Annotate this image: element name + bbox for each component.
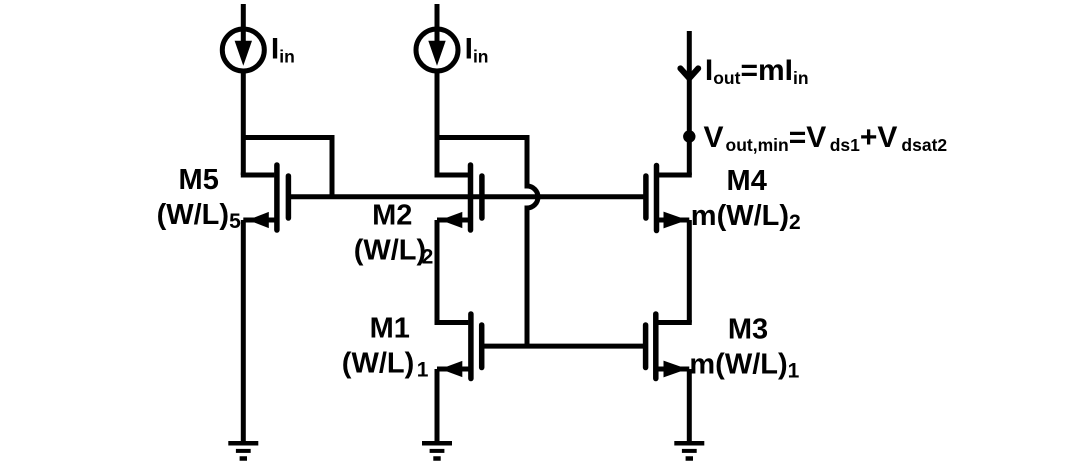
transistor M4 channel bar (654, 166, 660, 231)
current source I1 arrow (235, 32, 252, 66)
M4 source wire + arrow out (657, 212, 690, 229)
transistor M5 channel bar (274, 165, 280, 230)
wire: M5 diode loop horizontal (243, 135, 332, 140)
ground (left) (228, 443, 258, 458)
wire: middle branch top feed (435, 4, 440, 29)
M3 source wire + arrow out (657, 361, 690, 378)
wire: M1 drain stub (435, 320, 469, 325)
wire: M1 source down to ground (435, 369, 440, 443)
wire: M5 diode loop vertical (330, 135, 335, 197)
ground (right) (674, 443, 704, 458)
wire: M2 drain loop horizontal (437, 135, 527, 140)
M1 source wire + arrow into channel (437, 361, 471, 377)
svg-text:m(W/L)1: m(W/L)1 (689, 349, 799, 383)
transistor M5 gate bar (286, 176, 292, 218)
wire: M4 drain stub (657, 173, 692, 178)
svg-text:m(W/L)2: m(W/L)2 (691, 200, 801, 234)
transistor M1 gate bar (479, 325, 485, 368)
svg-text:(W/L)2: (W/L)2 (354, 234, 434, 268)
wire: middle branch CS to M2 drain (435, 71, 539, 346)
wire: M3 source down to ground (687, 369, 692, 443)
transistor M3 gate bar (643, 325, 649, 368)
wire: M5 source down to ground (241, 220, 246, 443)
output current chevron arrow (680, 68, 698, 78)
svg-text:M2: M2 (372, 199, 412, 231)
transistor M1 channel bar (468, 314, 474, 379)
svg-text:(W/L)5: (W/L)5 (157, 199, 241, 233)
wire: M5 drain stub (241, 173, 275, 178)
wire: M2 drain stub (435, 173, 469, 178)
wire: left branch, CS to M5 drain (241, 71, 332, 197)
current source I2 arrow (428, 32, 445, 66)
svg-text:M1: M1 (370, 312, 410, 344)
svg-text:M4: M4 (727, 165, 767, 197)
M5 source wire + arrow into channel (243, 212, 277, 228)
transistor M4 gate bar (643, 176, 649, 218)
ground (middle) (422, 443, 452, 458)
svg-text:M3: M3 (728, 313, 768, 345)
gate line M1-M3 (482, 344, 646, 349)
transistor M3 channel bar (653, 314, 659, 379)
gate bias line M5-M2-M4 (288, 194, 646, 199)
wire: output branch top (687, 31, 692, 175)
M2 source wire + arrow into channel (437, 212, 471, 228)
current source I1 circle (222, 29, 264, 71)
node dot Vout (683, 130, 695, 142)
wire: left branch top feed (241, 4, 246, 29)
wire: M2 source down to M1 drain (435, 220, 440, 323)
transistor M2 gate bar (479, 176, 485, 218)
current source I2 circle (416, 29, 458, 71)
wire: M3 drain stub (657, 320, 692, 325)
wire: M2 drain loop vertical with hop over gate line (527, 135, 538, 346)
svg-text:M5: M5 (179, 164, 219, 196)
transistor M2 channel bar (468, 165, 474, 230)
wire: M4 source down to M3 drain (687, 220, 692, 323)
